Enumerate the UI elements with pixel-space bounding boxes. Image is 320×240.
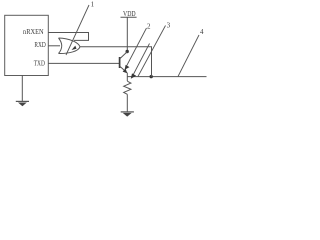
ground stem under box bbox=[21, 75, 23, 101]
gate output wire to node bbox=[80, 46, 153, 48]
MCU box bbox=[5, 15, 49, 75]
svg-text:VDD: VDD bbox=[123, 10, 136, 18]
LED vertical element bbox=[151, 47, 153, 77]
resistor lower wire bbox=[126, 94, 128, 112]
transistor collector lead bbox=[120, 52, 127, 59]
svg-text:1: 1 bbox=[91, 0, 95, 8]
light arrow at resistor bbox=[133, 44, 150, 76]
wire RXD to gate input bbox=[48, 45, 60, 47]
svg-text:RXD: RXD bbox=[34, 41, 45, 49]
svg-text:2: 2 bbox=[147, 23, 151, 31]
leader line 1 bbox=[66, 5, 89, 55]
bottom rail bbox=[127, 76, 207, 78]
svg-text:TXD: TXD bbox=[34, 60, 45, 68]
transistor Q1 base bar bbox=[119, 57, 121, 68]
leader line 2 with arrow at transistor bbox=[126, 28, 147, 67]
leader line 4 bbox=[178, 35, 199, 77]
ground under box bbox=[16, 100, 29, 102]
emitter vertical wire bbox=[126, 73, 128, 81]
VDD underline bbox=[121, 16, 137, 18]
wire TXD to transistor base bbox=[48, 62, 119, 64]
VDD wire down bbox=[126, 17, 128, 51]
svg-text:3: 3 bbox=[167, 21, 171, 29]
junction dot rail/LED bbox=[150, 75, 153, 78]
svg-text:nRXEN: nRXEN bbox=[23, 28, 44, 36]
gate U1 (OR shape) bbox=[59, 38, 81, 54]
resistor R1 bbox=[124, 81, 131, 94]
leader line 3 bbox=[138, 26, 166, 77]
junction dot collector/VDD bbox=[126, 50, 129, 53]
ground under resistor bbox=[121, 111, 134, 113]
transistor emitter lead with arrow bbox=[120, 66, 127, 72]
wire nRXEN to gate top input bbox=[48, 33, 89, 41]
svg-text:4: 4 bbox=[200, 28, 204, 36]
